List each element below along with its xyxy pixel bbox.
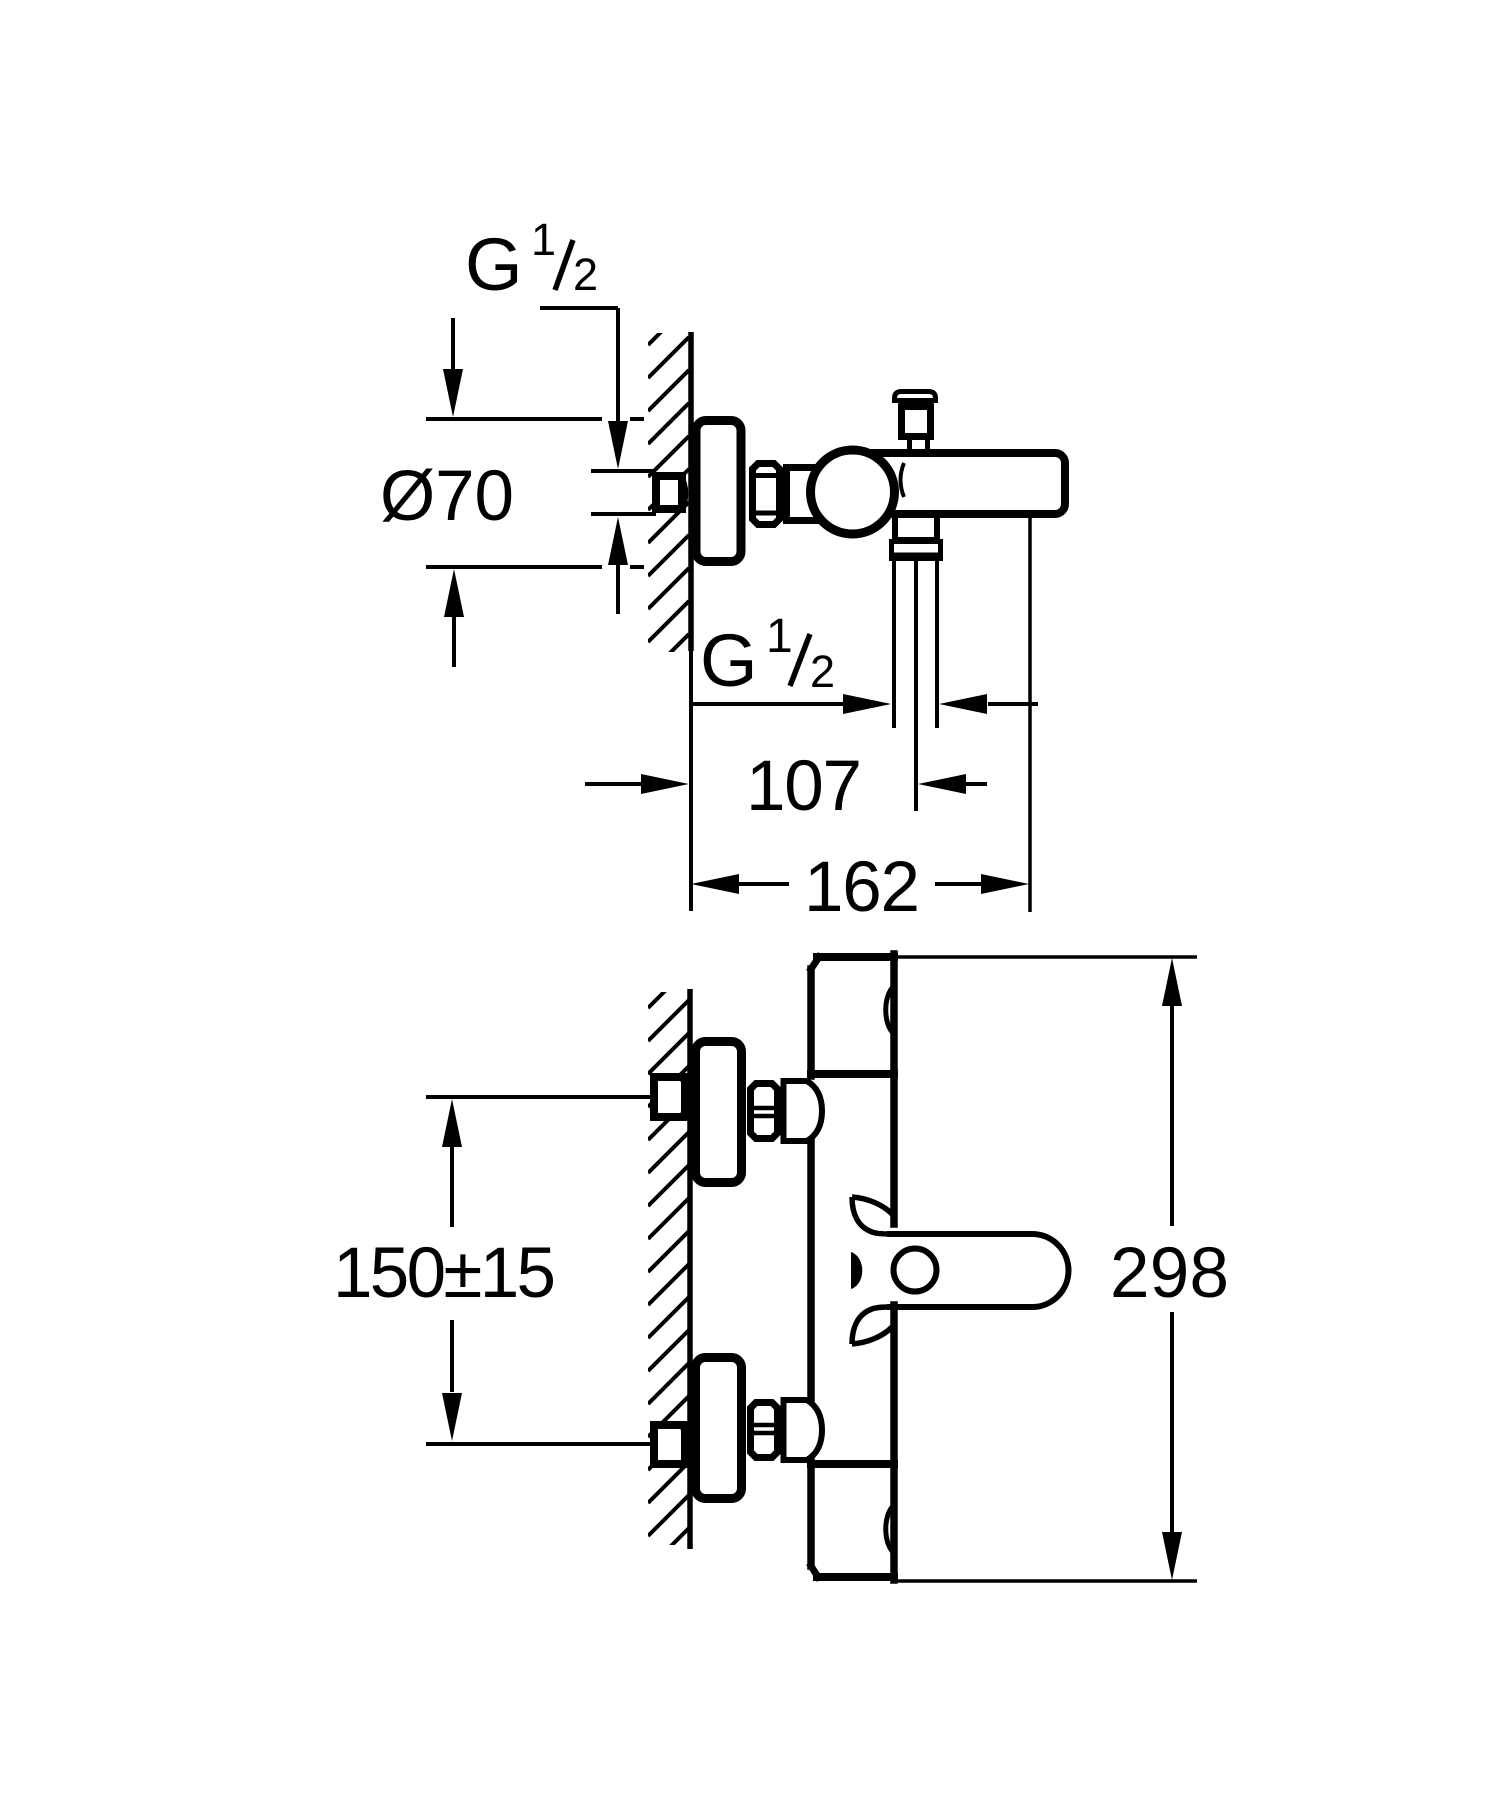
svg-text:1: 1 bbox=[531, 214, 556, 265]
svg-text:162: 162 bbox=[804, 848, 920, 927]
svg-text:G: G bbox=[465, 223, 523, 306]
svg-text:2: 2 bbox=[810, 646, 835, 697]
svg-text:150±15: 150±15 bbox=[333, 1234, 556, 1313]
svg-text:G: G bbox=[700, 619, 758, 702]
svg-text:Ø70: Ø70 bbox=[380, 457, 514, 536]
svg-text:298: 298 bbox=[1110, 1234, 1229, 1313]
svg-text:2: 2 bbox=[573, 249, 598, 300]
svg-text:1: 1 bbox=[766, 610, 793, 663]
svg-text:107: 107 bbox=[746, 747, 862, 826]
